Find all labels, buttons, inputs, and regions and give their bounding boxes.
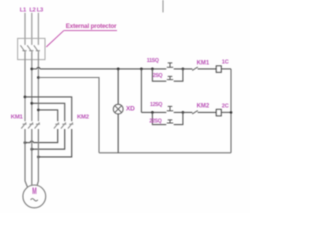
svg-text:2C: 2C [222,104,229,110]
wire phase 3 middle section [37,53,39,122]
wire rung2 from left rail [141,111,166,113]
node KM2 return to phase 2 [30,148,33,151]
node KM2 feed tap phase 3 [37,109,40,112]
wire left rail [140,69,142,113]
svg-text:2SQ: 2SQ [153,73,163,79]
wire KM2 feed from phase 3 [38,110,57,121]
node rung1 branch left [151,68,154,71]
motor tilde [31,199,38,201]
button 12SQ pushbutton [167,106,173,110]
wire rung1 to right rail [221,68,231,70]
wire lamp branch upper [117,69,119,104]
wire phase 1 lower to motor [25,129,28,187]
node KM2 return to phase 1 [24,141,27,144]
contactor KM2 main contact pole 1 [54,122,59,128]
wire phase 1 middle section [24,53,26,122]
svg-text:L3: L3 [37,7,44,13]
node rung1 branch right [182,68,185,71]
lamp XD symbol [113,104,123,114]
svg-text:11SQ: 11SQ [147,58,159,64]
svg-text:M: M [32,186,37,197]
wire L2 incoming [31,13,33,45]
circuit breaker QF pole 3 blade [34,45,40,52]
annotation External protector [46,23,117,47]
svg-text:KM2: KM2 [77,115,90,121]
node rung2 branch right [182,111,185,114]
node KM2 feed tap phase 2 [30,102,33,105]
wire rung1 to coil [198,68,217,70]
svg-text:External protector: External protector [66,23,117,30]
node control tap on phase 3 [37,76,40,79]
contact KM1 auxiliary [192,67,198,70]
wire phase 2 middle section [31,53,33,122]
button 11SQ pushbutton [167,63,173,67]
wire phase 2 lower to motor [31,129,33,185]
wire KM2 return pole 3 to phase 3 [38,129,71,157]
svg-text:12SQ: 12SQ [150,102,162,108]
svg-text:XD: XD [126,105,135,112]
wire rung1 mid segment [174,68,193,70]
contactor KM1 main contact pole 1 [21,122,26,128]
contact KM2 auxiliary [192,111,198,114]
svg-text:1C: 1C [222,60,229,66]
node KM2 return to phase 3 [37,156,40,159]
coil 2C [216,109,221,115]
wire phase 3 lower to motor [37,129,38,185]
wire rung1 branch loop [152,69,166,81]
button 22SQ pushbutton [167,120,173,123]
wire rung2 to coil [198,111,217,113]
wire KM2 feed from phase 1 [25,97,72,121]
wire KM2 return pole 2 to phase 2 [32,129,65,149]
wire control rail A [32,67,167,69]
svg-text:22SQ: 22SQ [149,118,161,124]
node left rail junction [140,68,143,71]
circuit breaker QF pole 1 blade [20,45,26,52]
node lamp branch junction [117,68,120,71]
contactor KM2 main contact pole 3 [68,122,73,128]
border tick top [162,0,164,12]
node rung2 right rail junction [230,111,233,114]
circuit breaker QF pole 2 blade [27,45,33,52]
wire rung2 branch return [174,112,183,124]
node control tap on phase 2 [30,68,33,71]
wire right rail [230,69,232,153]
wire rung2 to right rail [221,111,231,113]
wire L1 incoming [24,13,26,45]
wire control rail B return [38,78,99,153]
node rung2 branch left [151,111,154,114]
contactor KM1 main contact pole 3 [35,122,40,128]
circuit breaker QF enclosure box [18,38,45,59]
contactor KM2 main contact pole 2 [61,122,66,128]
svg-text:KM2: KM2 [197,104,210,110]
wire rung2 mid segment [174,111,193,113]
svg-text:L2: L2 [29,7,35,13]
wire rung1 branch return [174,69,183,81]
wire bottom rail [99,152,231,154]
button 21SQ pushbutton [167,76,173,79]
svg-text:KM1: KM1 [11,115,24,121]
coil 1C [216,66,221,72]
svg-text:KM1: KM1 [197,60,210,66]
svg-text:L1: L1 [20,7,27,13]
motor M circle [23,185,46,208]
wire KM2 return pole 1 to phase 1 [25,129,58,143]
node KM2 feed tap phase 1 [24,96,27,99]
wire L3 incoming [37,13,39,45]
wire KM2 feed from phase 2 [32,103,65,121]
contactor KM1 main contact pole 2 [28,122,33,128]
wire rung2 branch loop [152,112,166,124]
wire lamp branch lower [117,114,119,153]
